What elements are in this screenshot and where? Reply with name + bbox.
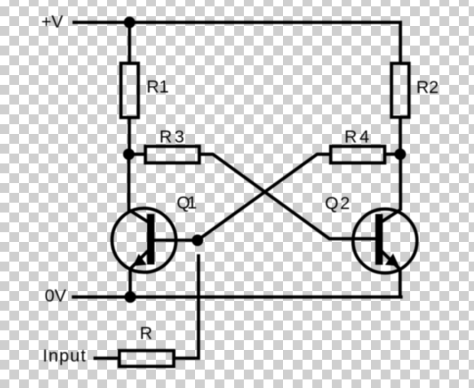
wire +V supply rail with corner down to R2	[73, 22, 401, 63]
node Q1 base junction	[192, 235, 204, 247]
wire Q2 collector lead	[399, 154, 402, 210]
svg-text:R4: R4	[344, 126, 369, 146]
svg-text:+V: +V	[41, 12, 63, 32]
wire Q1 emitter to 0V	[129, 269, 132, 297]
resistor R2	[392, 63, 439, 117]
wire Q1 collector lead	[127, 154, 130, 211]
svg-text:R2: R2	[416, 77, 438, 97]
wire Q1 base lead	[155, 239, 198, 242]
wire R to Q1 base branch	[174, 254, 199, 358]
wire cross-coupling R4 to Q1 base	[198, 154, 331, 240]
wire cross-coupling R3 to Q2 base	[199, 154, 376, 239]
node Q1 collector junction	[123, 148, 135, 160]
resistor R4	[331, 126, 385, 163]
wire 0V rail	[72, 295, 403, 298]
svg-text:0V: 0V	[45, 286, 67, 306]
node junction +V rail / R1	[124, 17, 136, 29]
svg-text:R1: R1	[147, 77, 169, 97]
resistor R (input)	[119, 323, 174, 366]
svg-text:R3: R3	[159, 126, 184, 146]
transistor Q1	[112, 193, 197, 273]
wire R1 bottom lead	[128, 118, 131, 155]
wire Q2 emitter to 0V	[398, 269, 401, 297]
wire R2 bottom lead	[399, 117, 402, 154]
svg-text:Input: Input	[43, 346, 86, 366]
svg-text:Q2: Q2	[325, 193, 350, 213]
wire R4 right lead	[385, 153, 401, 156]
svg-text:Q1: Q1	[177, 193, 197, 213]
node Q2 collector junction	[394, 148, 406, 160]
transistor Q2	[325, 193, 417, 273]
resistor R1	[121, 63, 169, 117]
svg-text:R: R	[140, 323, 153, 343]
wire R3 left lead	[129, 153, 146, 156]
wire R1 top lead	[128, 22, 131, 63]
node 0V rail junction	[124, 291, 136, 303]
wire Input lead	[94, 357, 120, 360]
resistor R3	[145, 126, 199, 163]
